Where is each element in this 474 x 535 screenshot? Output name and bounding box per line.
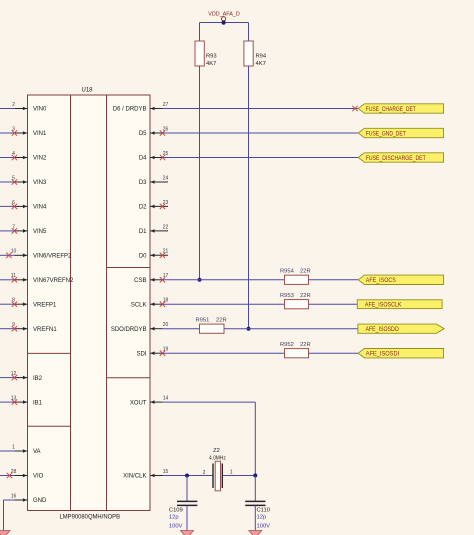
wire VIN1 to left edge: [0, 132, 14, 134]
no-connect X on IB1: [12, 399, 17, 404]
net label FUSE_GND_DET: [358, 128, 443, 137]
svg-text:VIN6/VREFP2: VIN6/VREFP2: [33, 254, 72, 260]
op-amp U18 LMP90080QMH/NOPB body: [28, 88, 151, 521]
svg-text:D6 / DRDYB: D6 / DRDYB: [113, 107, 147, 113]
pin 2 VIN0 (left): [12, 102, 47, 113]
capacitor C110 12p 100V: [245, 501, 270, 529]
wire R952 to AFE_ISOSDI: [309, 352, 359, 354]
pin 9 VREFN1 (left): [12, 322, 57, 333]
no-connect X on D0: [160, 253, 165, 258]
wire XOUT column to C110: [254, 476, 256, 502]
junction XOUT/C110: [253, 474, 257, 478]
svg-text:R94: R94: [256, 54, 267, 60]
pin 21 D0 (right, stub): [139, 249, 169, 260]
svg-text:FUSE_GND_DET: FUSE_GND_DET: [366, 130, 406, 137]
wire XIN to C109: [186, 476, 188, 502]
svg-text:24: 24: [163, 175, 169, 181]
net label AFE_ISOSDI: [358, 349, 443, 358]
pin 13 IB1 (left): [11, 396, 43, 407]
junction R93/CSB: [198, 278, 202, 282]
svg-text:100V: 100V: [257, 524, 271, 530]
wire VIO to left edge: [0, 475, 14, 477]
svg-text:D0: D0: [139, 254, 147, 260]
wire VDD rail horizontal: [200, 22, 249, 24]
svg-text:VA: VA: [33, 449, 41, 455]
svg-text:IB1: IB1: [33, 400, 43, 406]
no-connect X on VIN67VREFN2: [12, 277, 17, 282]
wire R94 to SDO net: [248, 66, 250, 329]
svg-text:2: 2: [203, 470, 206, 476]
svg-text:R954: R954: [280, 269, 295, 275]
svg-text:Z2: Z2: [213, 448, 220, 454]
wire IB1 to left edge: [0, 401, 14, 403]
wire SDI to R952: [163, 352, 285, 354]
svg-text:20: 20: [163, 322, 169, 328]
svg-text:22R: 22R: [300, 269, 311, 275]
no-connect X on VIO: [7, 473, 12, 478]
svg-text:2: 2: [12, 102, 15, 108]
wire VDD to R93: [199, 23, 201, 42]
svg-text:22R: 22R: [300, 342, 311, 348]
net label AFE_ISOSDO: [358, 324, 444, 333]
wire SCLK to R953: [163, 303, 285, 305]
no-connect X on VIN6/VREFP2: [6, 253, 11, 258]
wire C110 to ground: [254, 505, 256, 531]
svg-text:R953: R953: [280, 293, 294, 299]
wire crystal to XOUT column: [222, 475, 255, 477]
svg-text:U18: U18: [81, 88, 93, 94]
pin 11 VIN67VREFN2 (left): [11, 273, 74, 284]
no-connect X at FUSE_CHARGE_DET: [352, 106, 357, 111]
svg-text:16: 16: [11, 493, 17, 499]
svg-text:22: 22: [163, 224, 169, 230]
svg-text:AFE_ISOSDI: AFE_ISOSDI: [366, 351, 400, 358]
wire XIN/CLK to crystal: [163, 475, 214, 477]
wire VIN5 to left edge: [0, 230, 14, 232]
wire C109 to ground: [186, 505, 188, 531]
svg-text:15: 15: [163, 469, 169, 475]
svg-text:D2: D2: [139, 205, 147, 211]
wire R93 to CSB net: [199, 66, 201, 280]
svg-text:C109: C109: [169, 508, 183, 514]
wire VIN2 to left edge: [0, 157, 14, 159]
net label AFE_ISOSCLK: [357, 300, 442, 309]
svg-text:R93: R93: [206, 54, 217, 60]
resistor R93 4K7: [195, 41, 217, 67]
svg-text:GND: GND: [33, 498, 47, 504]
net label FUSE_CHARGE_DET: [358, 104, 443, 113]
no-connect X on SCLK: [160, 302, 165, 307]
no-connect X on D4: [160, 155, 165, 160]
wire GND pin to ground: [4, 500, 15, 531]
no-connect X on CSB: [160, 277, 165, 282]
pin 4 VIN2 (left): [12, 151, 47, 162]
no-connect X on D5: [160, 130, 165, 135]
pin 24 D3 (right, stub): [139, 175, 169, 186]
wire SDO to R951: [163, 328, 200, 330]
resistor R954 22R: [280, 269, 311, 285]
svg-text:SDO/DRDYB: SDO/DRDYB: [111, 327, 147, 333]
pin 23 D2 (right, stub): [139, 200, 169, 211]
svg-text:VIN3: VIN3: [33, 180, 47, 186]
pin 27 D6 / DRDYB (right): [113, 102, 169, 113]
pin 10 VIN6/VREFP2 (left): [11, 249, 72, 260]
junction R94/SDO: [247, 327, 251, 331]
net label FUSE_DISCHARGE_DET: [358, 153, 443, 162]
no-connect X on VIN1: [12, 130, 17, 135]
svg-text:VIN0: VIN0: [33, 107, 47, 113]
wire R951 to AFE_ISOSDO: [224, 328, 358, 330]
svg-text:4K7: 4K7: [206, 61, 216, 67]
pin 17 CSB (right): [134, 273, 168, 284]
resistor R952 22R: [280, 342, 311, 358]
wire VIN0 to left edge: [0, 108, 14, 110]
svg-text:1: 1: [12, 444, 15, 450]
wire VDD to R94: [248, 23, 250, 42]
svg-text:12p: 12p: [169, 515, 179, 521]
svg-text:12p: 12p: [257, 515, 267, 521]
svg-text:100V: 100V: [169, 524, 183, 530]
crystal Z2 4.0MHz: [203, 448, 233, 491]
pin 1 VA (left): [12, 444, 40, 455]
no-connect X on VIN5: [12, 228, 17, 233]
wire VIN67VREFN2 to left edge: [0, 279, 14, 281]
pin 5 VIN3 (left): [12, 175, 47, 186]
pin 14 XOUT (right): [130, 396, 169, 407]
svg-text:27: 27: [163, 102, 169, 108]
pin 25 D4 (right): [139, 151, 169, 162]
resistor R94 4K7: [244, 41, 267, 67]
svg-text:AFE_ISOSCLK: AFE_ISOSCLK: [365, 302, 402, 309]
svg-text:22R: 22R: [300, 293, 311, 299]
pin 16 GND (left): [11, 493, 47, 504]
pin 7 VIN5 (left): [12, 224, 47, 235]
svg-text:4.0MHz: 4.0MHz: [209, 455, 226, 461]
svg-text:D5: D5: [139, 131, 147, 137]
pin 20 SDO/DRDYB (right): [111, 322, 169, 333]
wire VA to left edge: [0, 450, 14, 452]
svg-text:AFE_ISOSDO: AFE_ISOSDO: [366, 326, 399, 333]
svg-text:SCLK: SCLK: [131, 302, 147, 308]
wire VIN6/VREFP2 to left edge: [0, 254, 14, 256]
svg-text:AFE_ISOCS: AFE_ISOCS: [366, 277, 396, 284]
no-connect X on VREFP1: [12, 302, 17, 307]
no-connect X on IB2: [12, 375, 17, 380]
no-connect X on D2: [160, 204, 165, 209]
svg-text:FUSE_CHARGE_DET: FUSE_CHARGE_DET: [366, 106, 416, 113]
pin 26 D5 (right): [139, 126, 169, 137]
svg-text:XIN/CLK: XIN/CLK: [123, 474, 146, 480]
svg-text:VIO: VIO: [33, 474, 44, 480]
pin 19 SDI (right): [136, 347, 168, 358]
net label AFE_ISOCS: [358, 275, 443, 284]
svg-text:10: 10: [11, 249, 17, 255]
pin 12 IB2 (left): [11, 371, 43, 382]
resistor R953 22R: [280, 293, 311, 309]
svg-text:VIN67VREFN2: VIN67VREFN2: [33, 278, 74, 284]
resistor R951 22R: [196, 318, 227, 334]
svg-text:XOUT: XOUT: [130, 400, 147, 406]
svg-text:VREFN1: VREFN1: [33, 327, 57, 333]
wire D5 to FUSE_GND_DET: [163, 132, 359, 134]
junction XIN/C109: [185, 474, 189, 478]
no-connect X on VREFN1: [12, 326, 17, 331]
wire D6 to FUSE_CHARGE_DET: [163, 108, 359, 110]
no-connect X on SDI: [160, 351, 165, 356]
power symbol VDD_AFA_D: [208, 12, 240, 23]
svg-text:4K7: 4K7: [256, 61, 266, 67]
ground symbol (C109): [181, 531, 194, 535]
svg-text:VIN5: VIN5: [33, 229, 47, 235]
svg-text:C110: C110: [257, 508, 270, 514]
wire D4 to FUSE_DISCHARGE_DET: [163, 157, 359, 159]
svg-text:D4: D4: [139, 156, 147, 162]
svg-text:VIN1: VIN1: [33, 131, 47, 137]
svg-text:1: 1: [230, 470, 233, 476]
svg-text:CSB: CSB: [134, 278, 146, 284]
no-connect X on VIN2: [12, 155, 17, 160]
wire VIN4 to left edge: [0, 205, 14, 207]
wire VREFN1 to left edge: [0, 328, 14, 330]
wire CSB to R954: [163, 279, 285, 281]
wire R953 to AFE_ISOSCLK: [309, 303, 358, 305]
svg-text:R951: R951: [196, 318, 210, 324]
svg-text:D3: D3: [139, 180, 147, 186]
svg-text:IB2: IB2: [33, 376, 43, 382]
no-connect X on VIN4: [12, 204, 17, 209]
svg-text:LMP90080QMH/NOPB: LMP90080QMH/NOPB: [60, 513, 121, 520]
wire VREFP1 to left edge: [0, 303, 14, 305]
svg-text:22R: 22R: [216, 318, 227, 324]
pin 22 D1 (right, stub): [139, 224, 169, 235]
wire IB2 to left edge: [0, 377, 14, 379]
junction VDD rail: [222, 21, 226, 25]
wire XOUT to crystal column: [163, 402, 256, 475]
ground symbol (U18 GND): [0, 531, 10, 535]
pin 8 VREFP1 (left): [12, 298, 57, 309]
pin 28 VIO (left): [11, 469, 44, 480]
svg-text:VREFP1: VREFP1: [33, 302, 57, 308]
wire VIN3 to left edge: [0, 181, 14, 183]
ground symbol (C110): [249, 531, 262, 535]
svg-text:14: 14: [163, 396, 169, 402]
no-connect X on VIN3: [12, 179, 17, 184]
capacitor C109 12p 100V: [169, 501, 197, 529]
pin 15 XIN/CLK (right): [123, 469, 168, 480]
svg-text:R952: R952: [280, 342, 294, 348]
wire R954 to AFE_ISOCS: [309, 279, 359, 281]
pin 6 VIN4 (left): [12, 200, 47, 211]
pin 3 VIN1 (left): [12, 126, 47, 137]
svg-text:FUSE_DISCHARGE_DET: FUSE_DISCHARGE_DET: [366, 155, 426, 162]
svg-text:SDI: SDI: [136, 351, 146, 357]
svg-text:VIN2: VIN2: [33, 156, 47, 162]
pin 18 SCLK (right): [131, 298, 169, 309]
svg-text:VIN4: VIN4: [33, 205, 47, 211]
svg-text:D1: D1: [139, 229, 147, 235]
